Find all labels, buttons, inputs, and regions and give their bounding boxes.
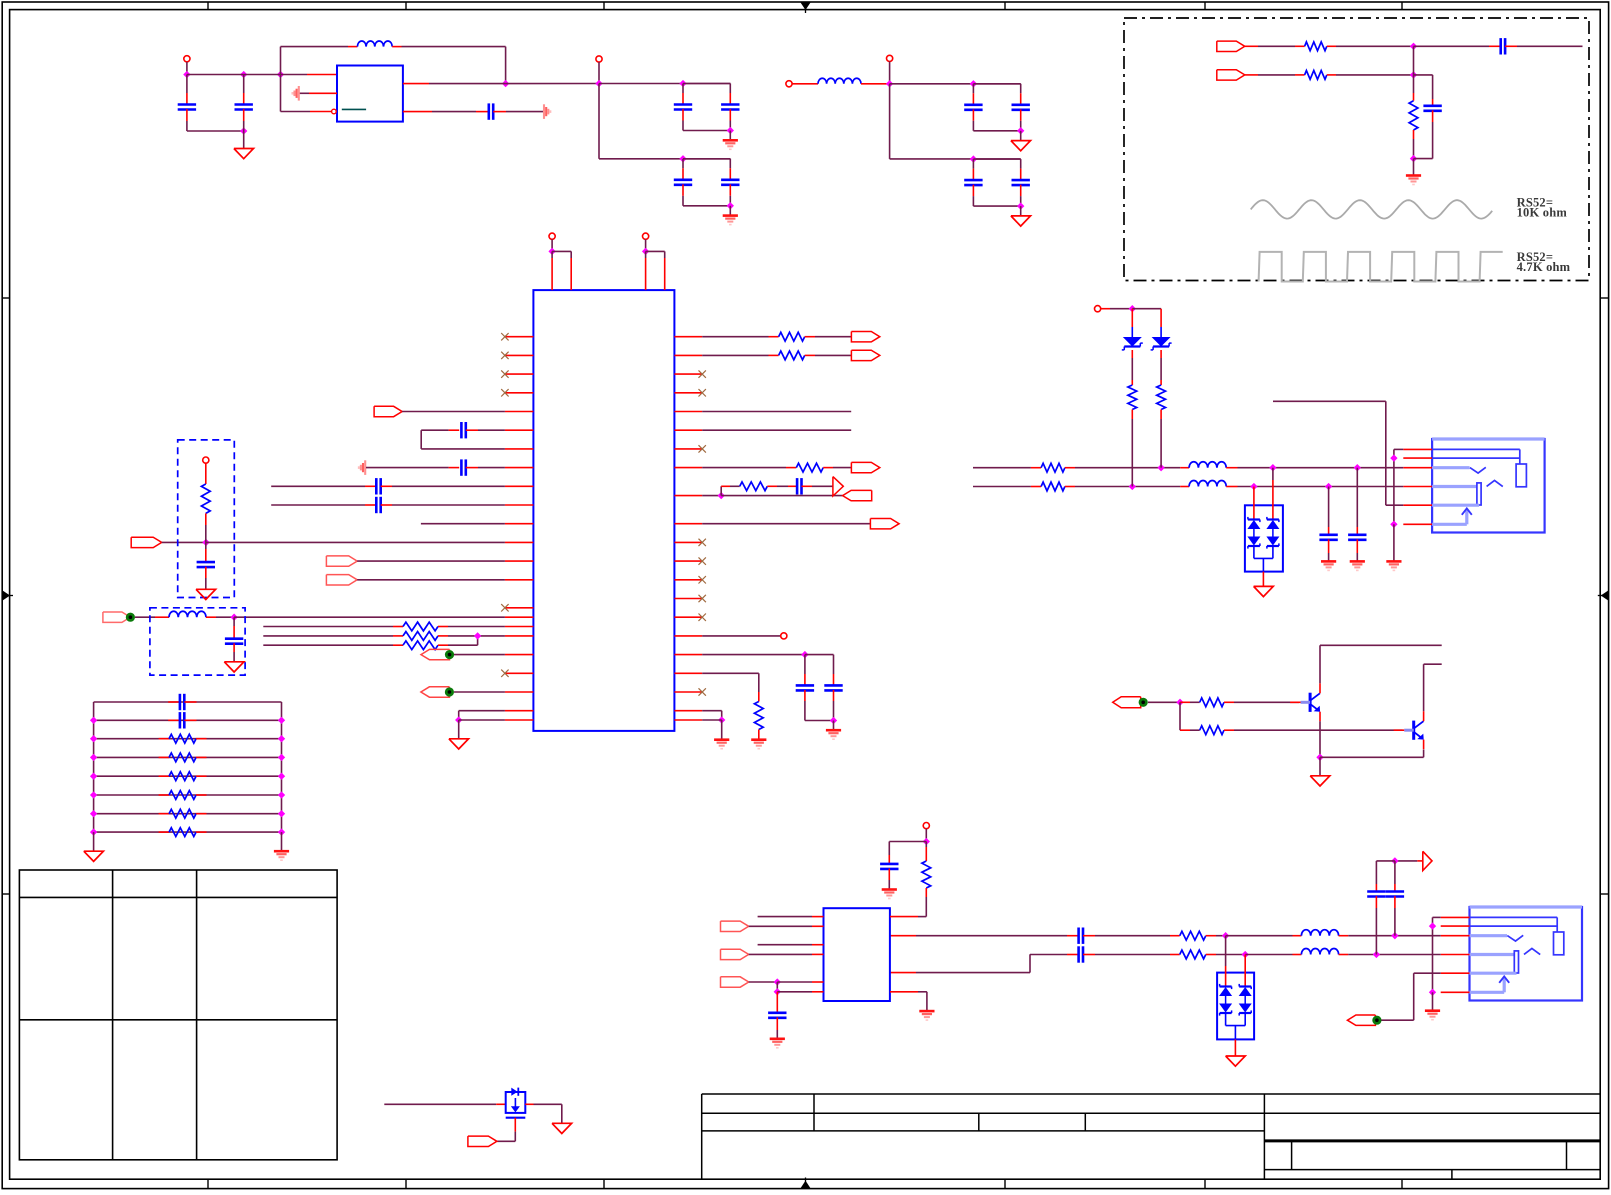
- svg-text:4.7K ohm: 4.7K ohm: [1517, 260, 1571, 274]
- svg-text:10K ohm: 10K ohm: [1517, 206, 1568, 220]
